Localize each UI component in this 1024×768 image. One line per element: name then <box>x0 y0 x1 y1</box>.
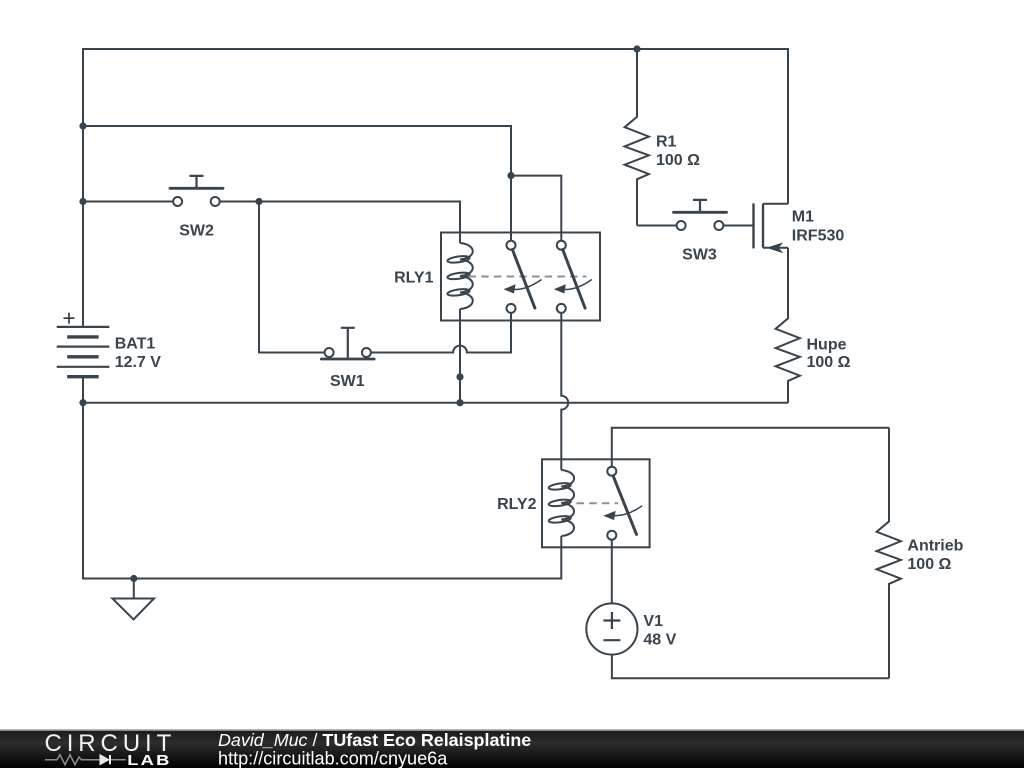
svg-text:RLY2: RLY2 <box>497 496 537 513</box>
relay RLY1 dashed link <box>469 276 587 278</box>
transistor M1 gate plate <box>752 203 754 248</box>
svg-text:http://circuitlab.com/cnyue6a: http://circuitlab.com/cnyue6a <box>218 749 448 768</box>
logo resistor-diode glyph <box>45 755 100 765</box>
wire R1 bottom to SW3 left <box>637 225 677 227</box>
wire RLY2 pin bottom to V1 plus <box>611 540 613 604</box>
svg-text:48 V: 48 V <box>643 632 676 649</box>
battery BAT1 <box>57 313 110 403</box>
wire mid rail y126 to RLY1 pin1 top <box>83 126 511 241</box>
svg-text:Antrieb: Antrieb <box>907 538 963 555</box>
svg-text:David_Muc / TUfast Eco Relaisp: David_Muc / TUfast Eco Relaisplatine <box>218 730 531 750</box>
resistor Antrieb <box>877 428 901 678</box>
relay RLY1 pole2 arrow <box>558 280 592 290</box>
relay RLY1 pole2 lever <box>563 250 585 309</box>
svg-text:SW3: SW3 <box>682 247 717 264</box>
relay RLY1 pole1 pins <box>507 241 516 250</box>
svg-text:SW2: SW2 <box>179 223 214 240</box>
switch SW1 (push button NC) <box>321 328 374 359</box>
svg-text:LAB: LAB <box>127 751 171 768</box>
relay RLY1 coil <box>447 243 473 309</box>
svg-text:100 Ω: 100 Ω <box>907 556 951 573</box>
wire RLY2 pin top to Antrieb top <box>612 428 889 467</box>
switch SW2 (push button NO) <box>170 176 223 206</box>
ground <box>112 599 154 620</box>
relay RLY2 box <box>542 459 650 547</box>
switch SW3 (push button NO) <box>674 200 727 230</box>
relay RLY2 lever <box>613 476 636 535</box>
wire SW3 right to M1 gate <box>723 225 753 227</box>
junction node dots <box>79 45 640 582</box>
wire branch to RLY1 pin2 top <box>511 176 561 241</box>
wire battery+ up, top rail, down to M1 drain <box>83 49 788 327</box>
svg-text:R1: R1 <box>656 134 677 151</box>
relay RLY1 pole2 pins <box>557 241 566 250</box>
relay RLY1 pole1 arrow <box>508 280 542 290</box>
wire SW2 right to RLY1 coil top <box>220 202 460 244</box>
wire ground rail and RLY2 coil bottom <box>83 403 561 579</box>
svg-text:V1: V1 <box>643 613 663 630</box>
wire bottom rail y402.7 <box>83 402 788 404</box>
svg-text:Hupe: Hupe <box>807 336 847 353</box>
wire left rail to SW2 left <box>83 201 173 203</box>
transistor M1 channel plate <box>762 204 764 248</box>
relay RLY1 box <box>441 233 600 321</box>
relay RLY2 dashed link <box>577 502 619 504</box>
transistor M1 source lead <box>763 247 788 249</box>
transistor M1 source arrow <box>766 242 783 253</box>
relay RLY2 pins <box>607 467 616 476</box>
svg-text:SW1: SW1 <box>330 373 365 390</box>
svg-text:IRF530: IRF530 <box>792 228 845 245</box>
voltage source V1 <box>586 603 637 654</box>
relay RLY2 arrow <box>609 506 643 516</box>
resistor R1 <box>625 49 649 226</box>
relay RLY2 coil <box>548 470 574 536</box>
wire junction down to SW1 left <box>259 202 325 353</box>
transistor M1 drain lead <box>763 203 788 205</box>
wire RLY1 pin2 bottom with hop down to RLY2 coil top <box>561 313 568 470</box>
wire V1 minus to Antrieb bottom <box>612 655 889 679</box>
svg-text:100 Ω: 100 Ω <box>807 354 851 371</box>
wire RLY1 coil bottom down to bottom rail <box>459 309 461 403</box>
svg-text:BAT1: BAT1 <box>115 336 156 353</box>
svg-text:RLY1: RLY1 <box>394 269 434 286</box>
resistor Hupe <box>776 248 800 403</box>
svg-text:12.7 V: 12.7 V <box>115 354 162 371</box>
svg-text:100 Ω: 100 Ω <box>656 152 700 169</box>
relay RLY1 pole1 lever <box>512 250 535 309</box>
wire ground stub <box>133 579 135 599</box>
svg-text:M1: M1 <box>792 209 814 226</box>
wire SW1 right with hop to RLY1 pin1 bottom <box>371 313 511 353</box>
